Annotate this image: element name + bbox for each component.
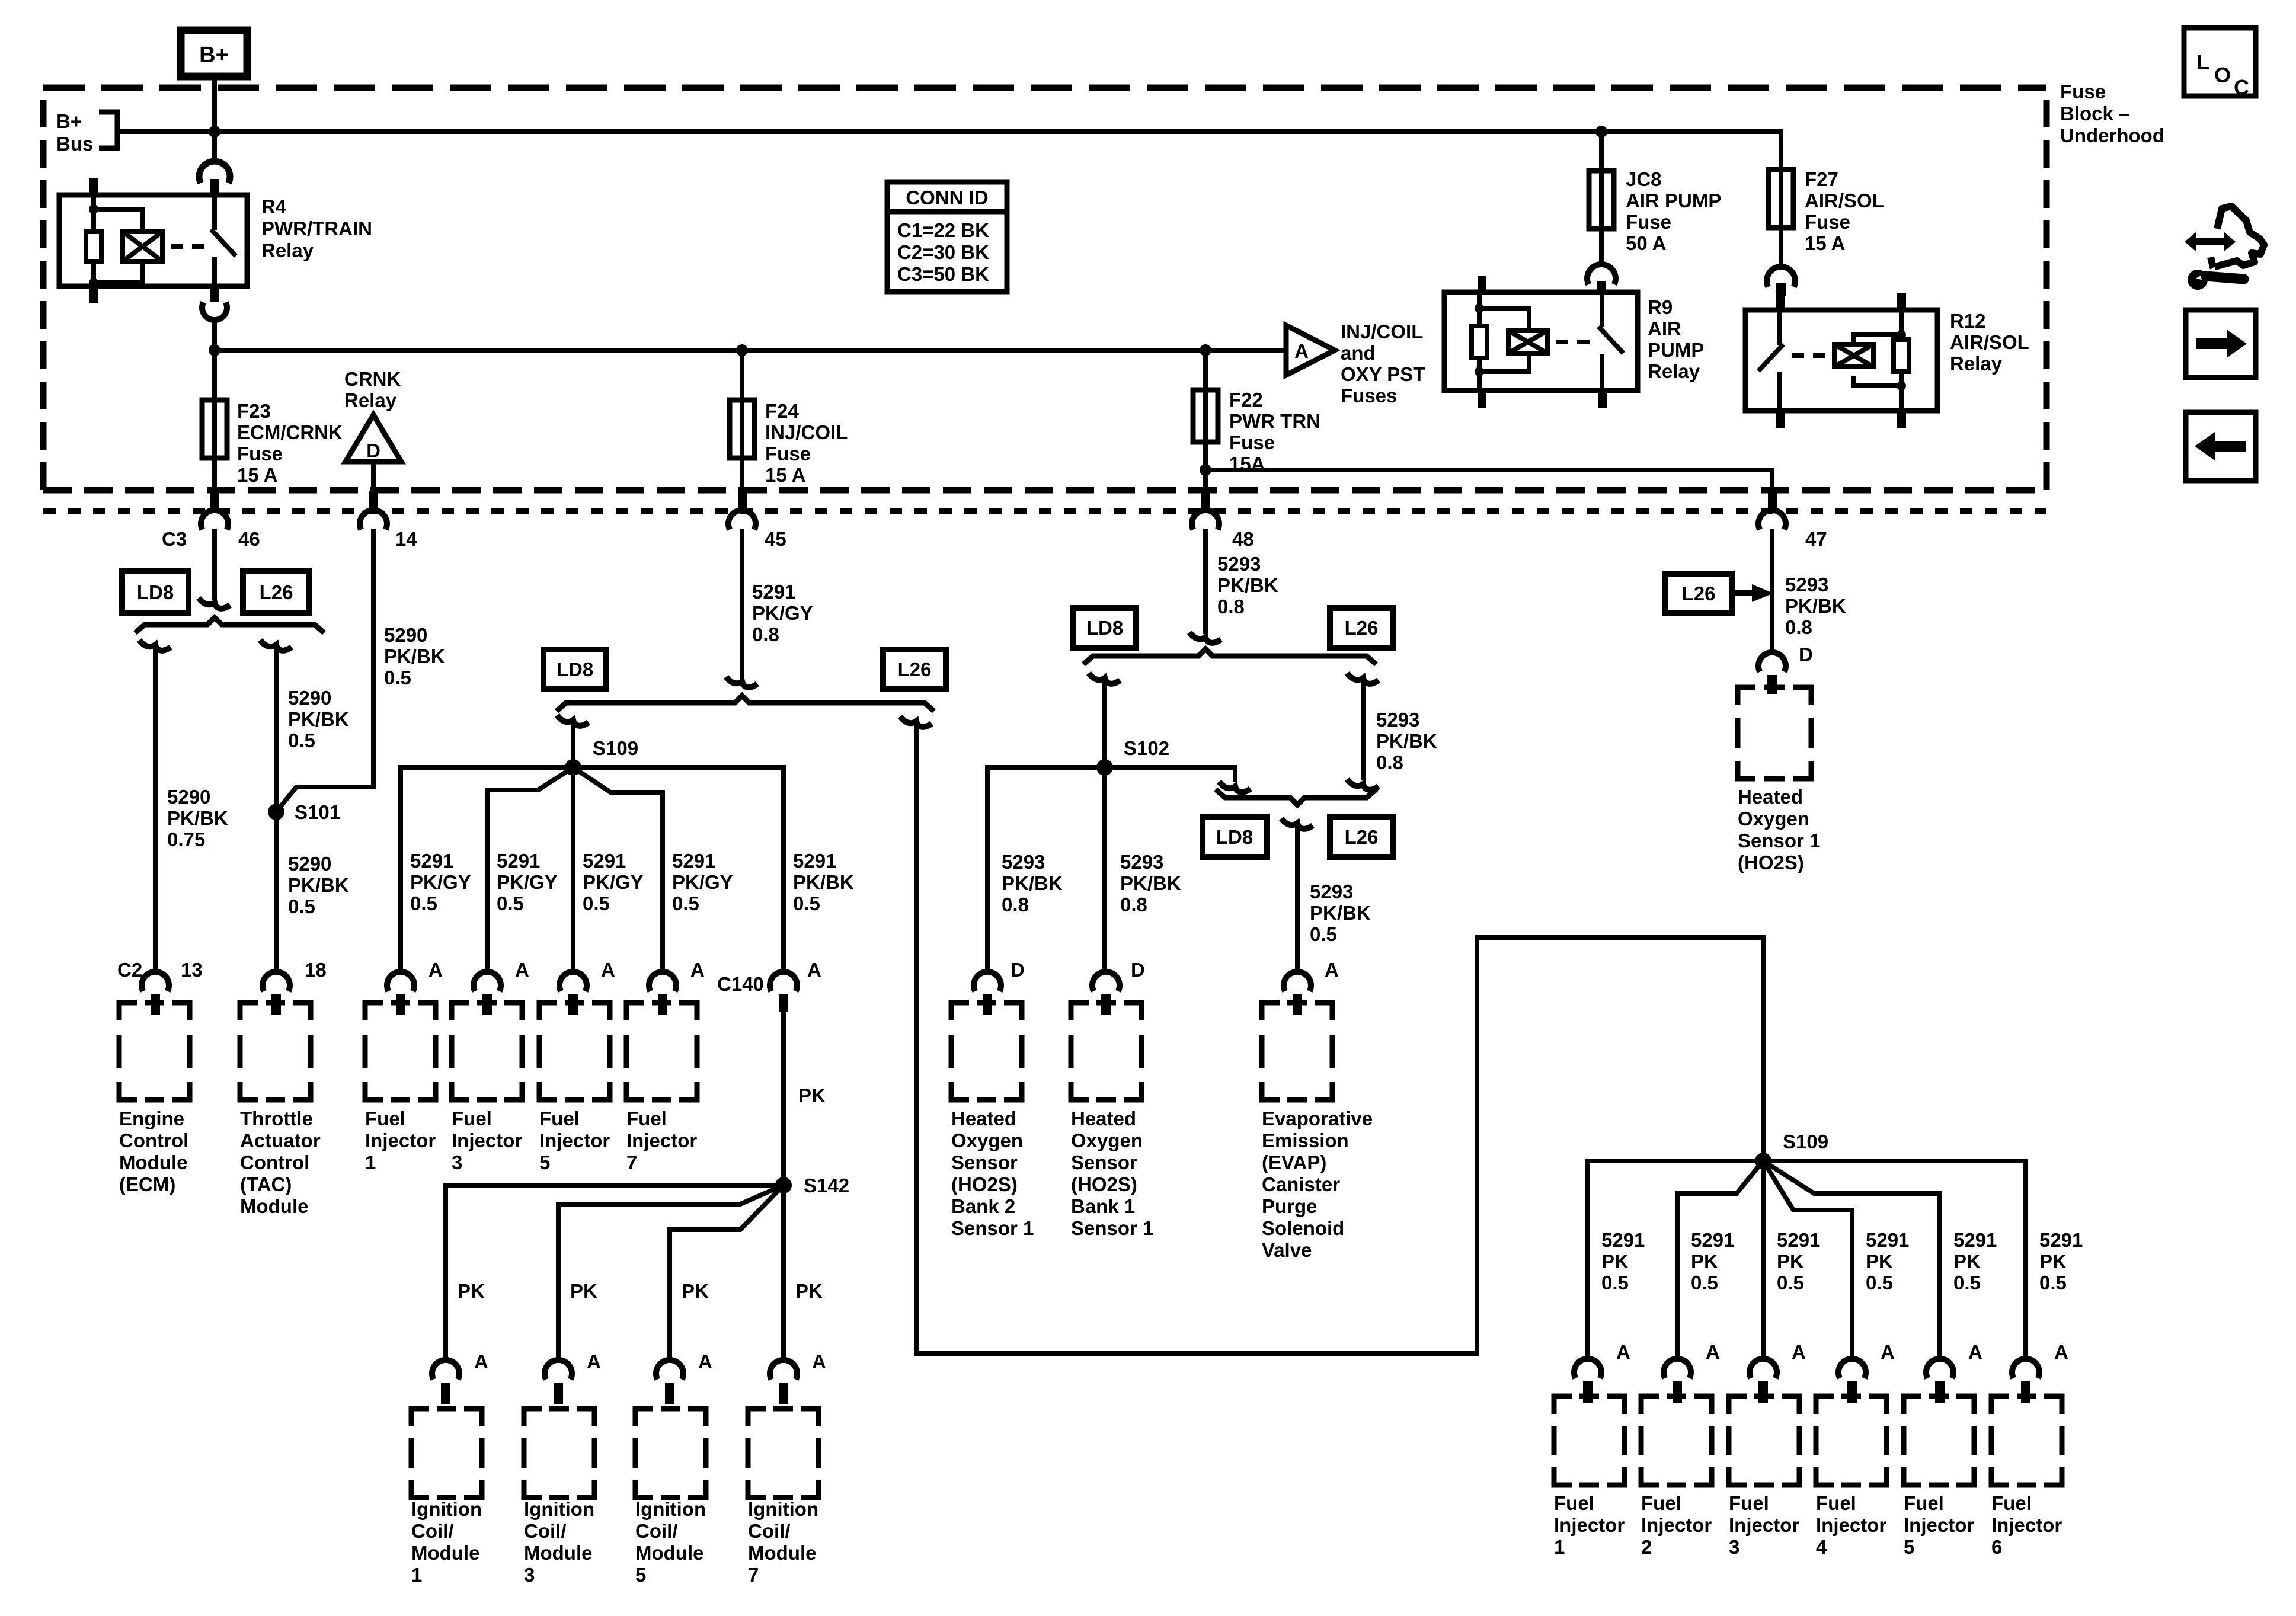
svg-text:Fuel: Fuel [1904,1492,1944,1514]
svg-text:15 A: 15 A [237,464,277,486]
svg-text:Relay: Relay [1648,360,1700,382]
svg-text:A: A [1968,1341,1982,1363]
svg-text:Canister: Canister [1262,1173,1340,1195]
component Fuel Injector 4 right [1816,1396,1886,1558]
pin D HO2S 1 [1758,644,1813,694]
label 5291 PK/GY 0.5 injector 3 [497,850,558,914]
svg-text:A: A [474,1351,488,1372]
svg-text:5290: 5290 [288,687,331,709]
svg-text:A: A [690,959,705,981]
svg-text:PK/BK: PK/BK [1785,595,1846,617]
svg-text:INJ/COIL: INJ/COIL [765,421,848,443]
component Evaporative Emission EVAP Canister Purge Solenoid Valve [1262,1003,1373,1261]
svg-text:PK: PK [1691,1250,1718,1272]
svg-text:5291: 5291 [497,850,540,872]
relay CRNK triangle D [344,368,401,492]
svg-text:Injector: Injector [365,1129,436,1151]
svg-text:Fuel: Fuel [1729,1492,1769,1514]
brace LD8/L26 column 45 [557,696,934,711]
relay R9 AIR PUMP [1444,276,1704,408]
svg-text:(HO2S): (HO2S) [1738,852,1804,873]
pin 14 [360,491,417,550]
svg-text:Oxygen: Oxygen [951,1129,1023,1151]
node A INJ/COIL and OXY PST Fuses [1286,321,1425,407]
splice S109 [565,737,638,776]
svg-text:1: 1 [1554,1536,1565,1558]
wire S142 to Ignition Coil 1 [446,1185,784,1358]
svg-text:PK: PK [1866,1250,1893,1272]
svg-text:1: 1 [411,1564,422,1586]
label 5291 PK 0.5 [1953,1229,1997,1294]
svg-text:Module: Module [411,1542,479,1564]
svg-text:Fuses: Fuses [1341,385,1397,407]
svg-text:5291: 5291 [1777,1229,1820,1251]
wire S109 to Fuel Injector 1 right [1588,1161,1763,1358]
svg-text:Ignition: Ignition [635,1498,706,1520]
svg-text:0.8: 0.8 [1785,616,1812,638]
svg-text:PK: PK [458,1280,485,1302]
svg-text:AIR/SOL: AIR/SOL [1805,190,1884,212]
wire S109 to Fuel Injector 5 [571,767,575,972]
connector arc above relay R9 [1587,264,1616,294]
svg-text:5: 5 [539,1151,550,1173]
svg-text:5291: 5291 [2039,1229,2083,1251]
svg-text:0.8: 0.8 [1002,894,1029,916]
svg-text:0.8: 0.8 [752,623,779,645]
svg-text:0.5: 0.5 [410,892,437,914]
svg-text:(HO2S): (HO2S) [1071,1173,1137,1195]
svg-text:0.5: 0.5 [1601,1272,1629,1294]
svg-text:INJ/COIL: INJ/COIL [1341,321,1423,343]
pin A fuel injector 3 [474,959,529,1015]
svg-text:0.75: 0.75 [167,828,205,850]
svg-text:Block –: Block – [2060,103,2129,124]
svg-text:S101: S101 [295,801,340,823]
label 5291 PK/GY 0.5 injector 7 [672,850,733,914]
svg-text:PK/BK: PK/BK [1310,902,1371,924]
svg-text:0.5: 0.5 [288,729,315,751]
svg-text:CONN ID: CONN ID [906,187,988,209]
svg-text:0.5: 0.5 [1953,1272,1981,1294]
svg-text:Coil/: Coil/ [748,1520,791,1542]
connector arc below relay R4 [202,286,227,320]
svg-text:Fuse: Fuse [2060,81,2106,103]
svg-text:Sensor 1: Sensor 1 [1738,830,1820,852]
fuse F24 INJ/COIL 15A [730,350,848,492]
svg-text:D: D [1011,959,1025,981]
svg-text:PK/BK: PK/BK [288,708,349,730]
svg-text:4: 4 [1816,1536,1827,1558]
svg-text:5: 5 [1904,1536,1914,1558]
wire S102 to HO2S Bank 1 (5293 PK/BK 0.8) [1105,767,1181,972]
svg-text:Actuator: Actuator [240,1129,321,1151]
svg-text:LD8: LD8 [137,581,174,603]
svg-text:Fuel: Fuel [539,1108,580,1129]
svg-text:PK: PK [1777,1250,1804,1272]
pin 47 [1758,491,1827,550]
label PK ignition wire [682,1280,709,1302]
svg-text:A: A [1792,1341,1806,1363]
component Fuel Injector 7 [626,1003,697,1173]
svg-text:Coil/: Coil/ [524,1520,567,1542]
svg-text:Ignition: Ignition [524,1498,594,1520]
svg-text:A: A [515,959,529,981]
svg-text:A: A [1881,1341,1895,1363]
splice S101 [268,801,340,823]
wire L26 loop to S109 [900,716,1763,1353]
relay R12 AIR/SOL [1745,293,2029,428]
wire pin 48 down (5293 PK/BK 0.8) [1189,529,1278,643]
svg-text:Injector: Injector [1641,1514,1712,1536]
svg-text:A: A [807,959,821,981]
svg-text:5291: 5291 [793,850,836,872]
component Heated Oxygen Sensor HO2S Bank 2 Sensor 1 [951,1003,1034,1239]
svg-text:Module: Module [524,1542,592,1564]
svg-text:Relay: Relay [1950,353,2003,375]
svg-text:Fuse: Fuse [1229,431,1275,453]
svg-text:0.8: 0.8 [1120,894,1147,916]
brace LD8/L26 column 46 [135,617,324,633]
svg-text:Fuse: Fuse [1626,211,1671,233]
svg-text:5: 5 [635,1564,646,1586]
svg-text:Fuse: Fuse [765,443,811,465]
svg-text:Evaporative: Evaporative [1262,1108,1373,1129]
svg-text:5291: 5291 [410,850,453,872]
svg-text:Relay: Relay [344,389,397,411]
wire S142 to Ignition Coil 3 [558,1185,784,1358]
svg-text:JC8: JC8 [1626,168,1662,190]
svg-text:L26: L26 [898,658,932,680]
svg-text:5291: 5291 [1953,1229,1997,1251]
svg-text:0.5: 0.5 [1866,1272,1893,1294]
svg-text:L26: L26 [1682,583,1716,604]
svg-text:A: A [601,959,615,981]
wire distribution line [215,344,1286,356]
svg-text:Fuel: Fuel [1641,1492,1681,1514]
svg-text:LD8: LD8 [1086,617,1123,639]
svg-text:PK: PK [1953,1250,1981,1272]
svg-text:45: 45 [765,528,786,550]
wire S109 to Fuel Injector 7 [573,767,663,972]
pin A ignition coil 1 [432,1351,488,1404]
label LD8 column 48 [1073,608,1136,648]
svg-text:Valve: Valve [1262,1239,1312,1261]
label 5291 PK/GY 0.5 injector 5 [583,850,644,914]
component Throttle Actuator Control TAC Module [240,1003,321,1217]
connector C3 dotted line [43,508,2046,514]
svg-text:Underhood: Underhood [2060,124,2164,146]
pin A ignition coil 5 [656,1351,712,1404]
svg-text:C3: C3 [162,528,187,550]
pin A ignition coil 7 [770,1351,826,1404]
svg-text:Module: Module [240,1195,308,1217]
svg-text:Fuel: Fuel [452,1108,492,1129]
svg-text:Sensor 1: Sensor 1 [951,1217,1034,1239]
svg-text:L26: L26 [260,581,293,603]
svg-text:PK/BK: PK/BK [1376,730,1437,752]
svg-text:0.5: 0.5 [1777,1272,1804,1294]
svg-text:F22: F22 [1229,389,1263,411]
svg-text:C2=30 BK: C2=30 BK [897,241,989,263]
pin D HO2S Bank 2 [974,959,1025,1015]
svg-text:Fuel: Fuel [1554,1492,1594,1514]
svg-text:PK: PK [795,1280,823,1302]
component Ignition Coil Module 3 [524,1409,594,1586]
node B+ Bus [56,110,117,155]
svg-text:(EVAP): (EVAP) [1262,1151,1326,1173]
svg-text:0.8: 0.8 [1217,596,1245,617]
svg-text:5291: 5291 [583,850,626,872]
svg-text:O: O [2214,63,2231,87]
svg-text:OXY PST: OXY PST [1341,363,1425,385]
svg-text:PWR TRN: PWR TRN [1229,410,1320,432]
pin A connector C140 [717,959,821,1012]
svg-text:PUMP: PUMP [1648,339,1704,361]
svg-text:CRNK: CRNK [344,368,401,390]
svg-text:0.5: 0.5 [288,895,315,917]
power terminal B+ [181,30,247,76]
label L26 column 45 [883,649,946,689]
fuse JC8 AIR PUMP 50A [1589,132,1721,265]
component Ignition Coil Module 5 [635,1409,706,1586]
label 5291 PK 0.5 [1601,1229,1645,1294]
svg-text:PK: PK [798,1084,826,1106]
wire F22 to pin 47 [1200,464,1772,492]
wire pin 47 down (5293 PK/BK 0.8) [1772,529,1846,652]
label C3 [162,528,187,550]
svg-text:Injector: Injector [1816,1514,1886,1536]
svg-text:PK/GY: PK/GY [672,871,733,893]
wire S109 to Fuel Injector 4 right [1763,1161,1852,1358]
svg-text:5291: 5291 [1866,1229,1909,1251]
svg-text:and: and [1341,342,1376,364]
pin A fuel injector 6 right [2012,1341,2068,1403]
component Heated Oxygen Sensor HO2S Bank 1 Sensor 1 [1071,1003,1153,1239]
wire S109 to C140 [573,767,784,972]
svg-text:(HO2S): (HO2S) [951,1173,1018,1195]
wire S109 to Fuel Injector 6 right [1763,1161,2026,1358]
vertical link 5293 PK/BK 0.8 [1347,673,1437,790]
svg-text:5291: 5291 [752,581,795,603]
svg-text:Purge: Purge [1262,1195,1318,1217]
wire pin 45 down (5291 PK/GY 0.8) [726,529,813,687]
label PK ignition wire [795,1280,823,1302]
svg-text:S109: S109 [1783,1131,1828,1153]
svg-text:A: A [1616,1341,1630,1363]
svg-text:A: A [1294,340,1309,362]
svg-text:Heated: Heated [1738,786,1803,808]
svg-text:A: A [587,1351,601,1372]
label PK ignition wire [570,1280,597,1302]
wire S109 to Fuel Injector 1 [401,767,573,972]
svg-text:5290: 5290 [384,624,427,646]
svg-text:3: 3 [524,1564,535,1586]
wire S142 to Ignition Coil 5 [670,1185,784,1358]
splice S102 [1096,737,1169,776]
svg-text:Bus: Bus [56,133,93,155]
wire S102 to HO2S Bank 2 (5293 PK/BK 0.8) [987,767,1105,972]
label L26 with arrow [1665,574,1773,613]
svg-text:R4: R4 [261,196,287,217]
svg-text:Ignition: Ignition [748,1498,818,1520]
svg-text:14: 14 [395,528,417,550]
wire S109 to Fuel Injector 2 right [1677,1161,1763,1358]
svg-text:18: 18 [305,959,327,981]
pin A fuel injector 7 [649,959,705,1015]
svg-text:Bank 2: Bank 2 [951,1195,1015,1217]
svg-text:ECM/CRNK: ECM/CRNK [237,421,343,443]
svg-text:Fuel: Fuel [365,1108,405,1129]
label LD8 EVAP [1203,817,1267,857]
svg-text:F27: F27 [1805,168,1838,190]
component Fuel Injector 1 right [1554,1396,1625,1558]
svg-text:D: D [1131,959,1145,981]
svg-text:S109: S109 [593,737,638,759]
svg-text:Solenoid: Solenoid [1262,1217,1344,1239]
svg-text:PWR/TRAIN: PWR/TRAIN [261,217,372,239]
svg-text:Engine: Engine [119,1108,184,1129]
label 5291 PK 0.5 [1866,1229,1909,1294]
svg-text:PK/BK: PK/BK [1120,872,1181,894]
label 5291 PK 0.5 [1777,1229,1820,1294]
svg-text:C140: C140 [717,973,764,995]
wire S109 to Fuel Injector 3 right [1761,1161,1766,1358]
svg-text:Injector: Injector [539,1129,610,1151]
svg-text:Module: Module [119,1151,187,1173]
icon arrow left box [2186,412,2256,481]
wire pin 14 down to S101 [276,529,445,812]
wire brace to EVAP (5293 PK/BK 0.5) [1281,818,1371,972]
svg-text:15 A: 15 A [765,464,805,486]
svg-text:Fuel: Fuel [1991,1492,2032,1514]
svg-text:(ECM): (ECM) [119,1173,175,1195]
splice S109 right [1755,1131,1828,1169]
label 5291 PK/BK 0.5 C140 wire [793,850,854,914]
svg-text:PK/GY: PK/GY [497,871,558,893]
svg-text:Sensor 1: Sensor 1 [1071,1217,1153,1239]
svg-text:C3=50 BK: C3=50 BK [897,263,989,285]
svg-text:5290: 5290 [288,853,331,875]
svg-text:A: A [428,959,443,981]
svg-text:5293: 5293 [1002,851,1045,873]
svg-text:B+: B+ [199,43,229,68]
component Fuel Injector 6 right [1991,1396,2062,1558]
component Fuel Injector 1 [365,1003,436,1173]
svg-text:A: A [2054,1341,2068,1363]
svg-text:1: 1 [365,1151,376,1173]
component Heated Oxygen Sensor 1 HO2S [1738,687,1820,873]
component Fuel Injector 3 [452,1003,522,1173]
svg-text:0.5: 0.5 [583,892,610,914]
label LD8 column 45 [543,649,606,689]
svg-text:R12: R12 [1950,310,1986,332]
wire S101 to TAC (5290 PK/BK 0.5) [276,812,349,972]
pin A fuel injector 5 [559,959,615,1015]
component Fuel Injector 5 [539,1003,610,1173]
svg-text:5291: 5291 [672,850,715,872]
label 5291 PK/GY 0.5 injector 1 [410,850,471,914]
fuse block border (Fuse Block - Underhood) [43,88,2046,490]
svg-text:Ignition: Ignition [411,1498,482,1520]
icon engine compartment [2185,206,2264,290]
svg-text:5293: 5293 [1376,709,1419,731]
svg-text:AIR/SOL: AIR/SOL [1950,331,2029,353]
wire brace to S109 [557,715,589,767]
svg-text:Relay: Relay [261,239,314,261]
svg-text:F24: F24 [765,400,800,422]
pin A fuel injector 5 right [1926,1341,1982,1403]
svg-text:Oxygen: Oxygen [1738,808,1809,830]
svg-text:Injector: Injector [626,1129,697,1151]
connector arc above relay R12 [1767,267,1795,296]
label L26 [243,571,309,613]
svg-text:Coil/: Coil/ [411,1520,454,1542]
svg-text:AIR PUMP: AIR PUMP [1626,190,1721,212]
svg-text:Fuel: Fuel [626,1108,667,1129]
svg-text:0.5: 0.5 [1691,1272,1718,1294]
svg-text:S102: S102 [1124,737,1169,759]
svg-text:5290: 5290 [167,786,210,808]
svg-text:46: 46 [238,528,260,550]
svg-text:5291: 5291 [1601,1229,1645,1251]
svg-text:5291: 5291 [1691,1229,1734,1251]
svg-text:Injector: Injector [1991,1514,2062,1536]
svg-text:48: 48 [1232,528,1254,550]
svg-text:PK/BK: PK/BK [793,871,854,893]
pin A fuel injector 1 right [1574,1341,1630,1403]
fuse F22 PWR TRN 15A [1193,350,1320,492]
component Fuel Injector 5 right [1904,1396,1974,1558]
svg-text:0.5: 0.5 [672,892,699,914]
component Fuel Injector 2 right [1641,1396,1712,1558]
wire S109 to Fuel Injector 3 [487,767,573,972]
svg-text:Fuse: Fuse [1805,211,1850,233]
icon LOC box [2184,28,2256,100]
svg-text:6: 6 [1991,1536,2002,1558]
svg-text:A: A [1325,959,1339,981]
pin D HO2S Bank 1 [1092,959,1145,1015]
svg-text:C1=22 BK: C1=22 BK [897,219,989,241]
svg-text:PK: PK [2039,1250,2067,1272]
svg-text:L26: L26 [1345,617,1379,639]
svg-text:PK: PK [1601,1250,1629,1272]
svg-text:47: 47 [1805,528,1827,550]
svg-text:Heated: Heated [951,1108,1016,1129]
svg-text:C: C [2234,75,2249,100]
svg-text:13: 13 [181,959,203,981]
wire brace to S102 [1089,673,1120,767]
brace EVAP LD8/L26 [1216,789,1376,805]
wire B+ to bus [212,76,217,161]
svg-text:PK/BK: PK/BK [167,807,228,829]
svg-text:3: 3 [1729,1536,1739,1558]
component Fuel Injector 3 right [1729,1396,1799,1558]
svg-text:Control: Control [240,1151,309,1173]
component Ignition Coil Module 7 [748,1409,818,1586]
brace LD8/L26 column 48 [1083,649,1376,664]
svg-text:7: 7 [748,1564,759,1586]
wire S142 to Ignition Coil 7 [781,1185,786,1358]
label Fuse Block - Underhood [2060,81,2164,146]
svg-text:PK/GY: PK/GY [583,871,644,893]
svg-text:Heated: Heated [1071,1108,1136,1129]
pin A fuel injector 2 right [1664,1341,1720,1403]
svg-text:S142: S142 [804,1175,849,1196]
svg-text:Fuse: Fuse [237,443,283,465]
label 5291 PK 0.5 [2039,1229,2083,1294]
svg-text:5293: 5293 [1217,553,1261,575]
svg-text:PK/BK: PK/BK [1217,574,1278,596]
